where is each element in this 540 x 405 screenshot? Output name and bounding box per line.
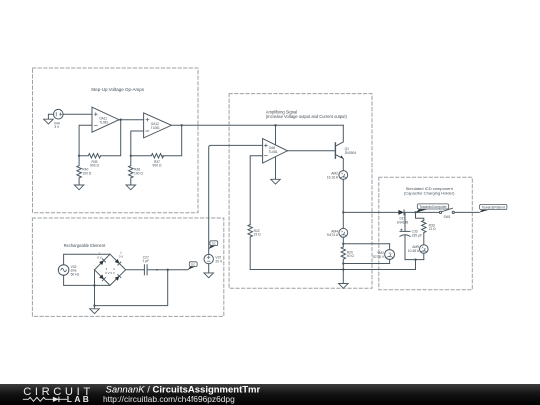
svg-text:40 Ω: 40 Ω bbox=[347, 254, 355, 258]
junction feedback node 2 bbox=[130, 155, 132, 157]
ground under OA8 bbox=[271, 179, 281, 184]
wire OA12 - input to feedback node 2 bbox=[131, 131, 144, 156]
diode D19 bbox=[398, 210, 404, 215]
wire OA8 V+ power pin to rail bbox=[275, 125, 277, 144]
bridge diode bottom-right bbox=[115, 276, 120, 281]
dashed enclosure box D: Rechargeable Element bbox=[32, 218, 223, 316]
footer bar bbox=[0, 384, 540, 405]
junction OA11 output bbox=[120, 119, 122, 121]
net flag TowardsComputer bbox=[416, 204, 449, 213]
svg-text:http://circuitlab.com/ch4f696p: http://circuitlab.com/ch4f696pz6dpg bbox=[103, 394, 235, 404]
wire node to box C diode bbox=[343, 211, 398, 213]
svg-text:10.48 A: 10.48 A bbox=[408, 249, 420, 253]
op-amp OA11 bbox=[92, 107, 119, 132]
svg-text:V: V bbox=[389, 251, 391, 255]
wire switch to TowardsPatient bbox=[454, 211, 479, 213]
voltage source V44 bbox=[54, 109, 64, 119]
wire output down to feedback resistor R39 bbox=[101, 120, 121, 156]
wire C27 to DC flag bbox=[147, 269, 188, 271]
svg-text:A: A bbox=[422, 246, 424, 250]
wire OA8 V- power pin to ground bbox=[275, 157, 277, 179]
svg-text:TL081: TL081 bbox=[151, 126, 160, 130]
dashed enclosure box A: Step-Up Voltage Op-Amps bbox=[33, 68, 199, 213]
op-amp OA12 bbox=[144, 113, 172, 138]
wire V32 bottom to bridge bottom bbox=[64, 275, 110, 285]
svg-text:TL081: TL081 bbox=[99, 120, 108, 124]
wire rail from OA12 output to Q1 collector bbox=[171, 124, 343, 126]
wire bridge right corner to C27 bbox=[126, 269, 145, 271]
CircuitLab logo diode arrow bbox=[53, 397, 59, 402]
bridge diode bottom-left bbox=[99, 274, 104, 279]
svg-text:100 Ω: 100 Ω bbox=[134, 171, 143, 175]
svg-text:0 V: 0 V bbox=[119, 254, 124, 258]
wire diode to switch bbox=[404, 211, 439, 213]
junction node to diode wire bbox=[342, 211, 344, 213]
ammeter AM9 bbox=[420, 245, 429, 254]
transistor Q1 bbox=[335, 125, 343, 170]
svg-text:1N4148: 1N4148 bbox=[397, 220, 409, 224]
wire tap to VM2 bottom bbox=[343, 263, 389, 265]
svg-text:21 Ω: 21 Ω bbox=[429, 227, 437, 231]
wire OA8 output to Q1 base bbox=[287, 150, 335, 152]
ammeter AM4 bbox=[339, 228, 348, 237]
junction rail at OA8 V+ bbox=[274, 124, 276, 126]
dashed enclosure box C: Simulated ICD component bbox=[379, 177, 473, 289]
svg-text:(Capacitor Charging Holder): (Capacitor Charging Holder) bbox=[404, 191, 455, 196]
wire OA8 - input to R22 bbox=[250, 156, 262, 225]
ground at V44 bbox=[44, 119, 54, 124]
CircuitLab logo resistor-diode squiggle bbox=[23, 397, 67, 402]
bridge diode top-left bbox=[99, 260, 104, 265]
junction VM2 top tap bbox=[342, 243, 344, 245]
svg-text:23 Ω: 23 Ω bbox=[254, 233, 262, 237]
resistor R22 bbox=[248, 225, 252, 270]
svg-text:235 µF: 235 µF bbox=[412, 233, 422, 237]
wire cap branch bottom bbox=[404, 236, 406, 260]
svg-text:TL081: TL081 bbox=[269, 150, 278, 154]
junction feedback node 1 bbox=[78, 155, 80, 157]
svg-text:1 µF: 1 µF bbox=[142, 259, 149, 263]
bridge rectifier diamond bbox=[95, 254, 126, 285]
junction ground rail bbox=[342, 268, 344, 270]
wire R33 branch connector bbox=[416, 212, 424, 220]
dashed enclosure box B: Amplifying Signal bbox=[229, 94, 372, 289]
wire VM2 top bbox=[389, 244, 391, 250]
resistor R33 bbox=[422, 220, 426, 244]
resistor R37 bbox=[131, 154, 164, 158]
svg-text:LAB: LAB bbox=[67, 394, 91, 404]
bridge diode top-right bbox=[115, 259, 120, 264]
ground under V37 bbox=[204, 273, 214, 278]
wire bottom rail of amplifier bbox=[250, 269, 415, 271]
svg-text:SW1: SW1 bbox=[444, 215, 451, 219]
voltmeter VM2 bbox=[385, 250, 395, 260]
voltage source V32 sine bbox=[58, 265, 69, 276]
svg-text:TowardsPatient: TowardsPatient bbox=[482, 206, 505, 210]
svg-text:2N3904: 2N3904 bbox=[345, 151, 357, 155]
wire V44 minus to ground bbox=[48, 114, 53, 119]
svg-text:9.674 A: 9.674 A bbox=[327, 233, 339, 237]
wire V44 plus to op-amp OA11 + input bbox=[63, 113, 92, 115]
svg-text:3 V: 3 V bbox=[54, 125, 60, 129]
junction small on C27 output bbox=[156, 269, 158, 271]
svg-text:TowardsComputer: TowardsComputer bbox=[419, 205, 447, 209]
net flag DC at V37 bbox=[209, 241, 218, 249]
svg-text:Rechargeable Element: Rechargeable Element bbox=[64, 243, 107, 248]
ground under R40 bbox=[74, 185, 84, 190]
wire bridge left corner down bbox=[94, 270, 96, 306]
junction crossing at V32 bottom wire bbox=[93, 284, 95, 286]
svg-text:0 V 0 V: 0 V 0 V bbox=[105, 271, 115, 275]
ground under R38 bbox=[126, 185, 136, 190]
wire DC net riser to OA8 + input bbox=[209, 145, 263, 254]
resistor R38 bbox=[129, 156, 133, 185]
wire R37 right to OA12 output bbox=[163, 125, 182, 156]
wire V37 to ground bbox=[208, 264, 210, 273]
voltage source V37 bbox=[204, 254, 213, 263]
junction C27 output to rail bbox=[167, 269, 169, 271]
junction OA12 output bbox=[181, 124, 183, 126]
svg-text:100 Ω: 100 Ω bbox=[82, 171, 91, 175]
svg-text:207.8 V: 207.8 V bbox=[373, 255, 385, 259]
wire VM2 bottom bbox=[389, 259, 391, 263]
resistor R39 bbox=[79, 154, 100, 158]
svg-text:20 V: 20 V bbox=[215, 259, 223, 263]
wire OA11 output row bbox=[119, 119, 144, 121]
wire cap and AM9 bottom row bbox=[405, 259, 424, 261]
net flag TowardsPatient bbox=[479, 204, 507, 212]
svg-text:900 Ω: 900 Ω bbox=[153, 164, 162, 168]
svg-text:A: A bbox=[341, 172, 343, 176]
wire OA11 - input to feedback node bbox=[79, 125, 92, 156]
junction bottom row bbox=[414, 258, 416, 260]
net flag DC at rechargeable output bbox=[188, 262, 198, 270]
resistor R20 bbox=[341, 247, 345, 284]
ground under R20 bbox=[339, 284, 349, 289]
junction bottom rail ground bbox=[93, 304, 95, 306]
wire AM2 to node row bbox=[342, 179, 344, 228]
wire tap to VM2 top bbox=[343, 243, 389, 245]
ammeter AM2 bbox=[339, 171, 348, 180]
svg-text:A: A bbox=[341, 229, 343, 233]
op-amp OA8 bbox=[263, 139, 288, 164]
capacitor C33 bbox=[400, 229, 410, 237]
wire AM9 bottom bbox=[423, 253, 425, 259]
svg-text:0 V: 0 V bbox=[97, 255, 102, 259]
junction VM2 bottom tap bbox=[342, 262, 344, 264]
ground at rechargeable element bbox=[90, 306, 100, 314]
wire AM4 to R20 bbox=[342, 237, 344, 247]
svg-text:Step-Up Voltage Op-Amps: Step-Up Voltage Op-Amps bbox=[91, 87, 145, 92]
wire bottom row to ground rail bbox=[415, 260, 417, 270]
junction at flag TowardsComputer bbox=[414, 211, 416, 213]
switch SW1 bbox=[439, 208, 454, 213]
svg-text:900 Ω: 900 Ω bbox=[90, 164, 99, 168]
svg-text:(Increase Voltage output and C: (Increase Voltage output and Current out… bbox=[266, 114, 348, 119]
resistor R40 bbox=[77, 156, 81, 185]
capacitor C27 bbox=[144, 265, 147, 275]
svg-text:50 Hz: 50 Hz bbox=[71, 272, 80, 276]
wire bottom rail to C27 node bbox=[95, 270, 168, 306]
wire cap branch top bbox=[404, 212, 406, 231]
wire V32 top to bridge top bbox=[64, 254, 110, 265]
svg-text:16.16 A: 16.16 A bbox=[327, 175, 339, 179]
